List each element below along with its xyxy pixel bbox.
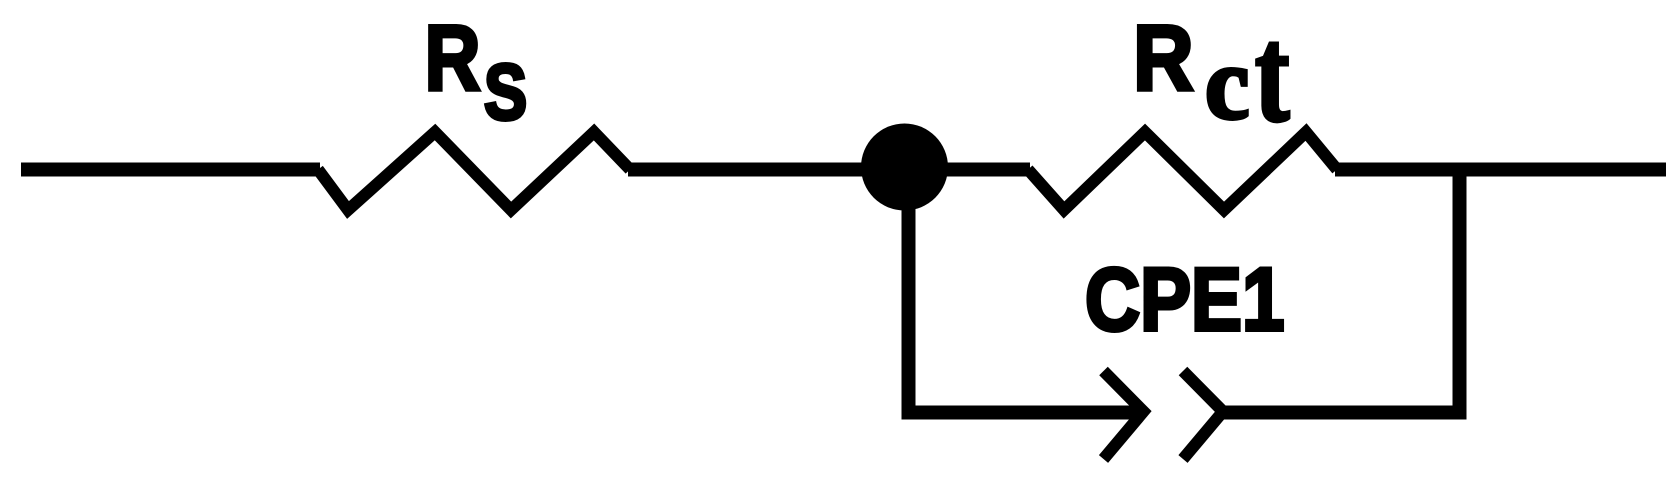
svg-text:R: R xyxy=(425,7,481,110)
svg-text:t: t xyxy=(1255,0,1289,150)
svg-text:S: S xyxy=(484,49,527,137)
svg-text:c: c xyxy=(1205,26,1249,141)
svg-text:CPE1: CPE1 xyxy=(1085,250,1284,350)
svg-text:R: R xyxy=(1133,6,1193,110)
